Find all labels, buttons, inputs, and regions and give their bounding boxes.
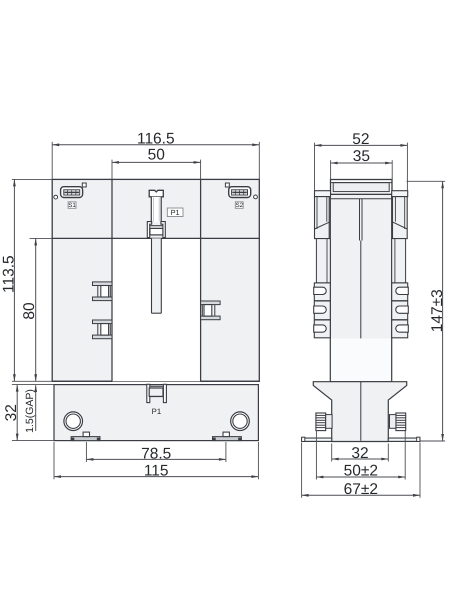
dim 116.5 extension lines [52,142,259,180]
clamp nut [150,228,163,235]
side view: main column [330,194,391,381]
dim 80 [21,238,38,381]
dim 52 extension lines [315,143,408,191]
side view: top cap [331,180,393,195]
dim 115 extension lines [54,442,258,479]
side view: spring comb left [314,283,331,338]
dim 67+-2 [302,481,420,498]
svg-text:50: 50 [148,147,166,164]
side view: foot left [302,437,332,441]
dim 50 extension lines [112,160,201,180]
side view: collar line under cap [330,198,391,200]
svg-text:147±3: 147±3 [429,289,446,332]
terminal S1 connector [61,187,83,198]
label P1 box [167,208,183,217]
window latch clip lower-left [93,320,113,339]
front view: base block [54,385,258,441]
label P1 on base [152,407,162,416]
dim 50+-2 extension lines [316,431,405,480]
dim 32 side [332,445,389,462]
side view: core split lines [360,199,363,438]
svg-text:78.5: 78.5 [141,445,171,462]
side view: base trapezoid [313,382,406,442]
svg-text:S1: S1 [68,202,76,209]
svg-text:35: 35 [353,148,370,165]
dim 50+-2 [316,463,405,480]
side view: wing channel right [392,197,407,239]
svg-text:P1: P1 [171,208,180,217]
base mounting hole right [231,412,250,431]
terminal S2 pilot circle [254,195,258,199]
side view: spring comb right [392,283,409,338]
side view: wing channel left [315,197,331,239]
base clamp nut [149,388,163,396]
foot left (front view) [71,432,100,441]
svg-text:115: 115 [144,463,169,480]
svg-text:116.5: 116.5 [137,130,175,147]
dim 113.5 [1,179,18,381]
label S2 [235,202,243,209]
svg-text:113.5: 113.5 [1,255,18,293]
dim 50 [112,147,201,164]
terminal S1 corner square [82,183,86,187]
svg-text:32: 32 [3,404,20,421]
base clamp bracket [147,384,167,402]
dim 113.5 extension lines [12,179,53,381]
dim 35 [331,148,393,165]
dim 35 extension lines [331,160,393,179]
label S1 [68,202,76,209]
side view: strip left [316,239,330,283]
dim 78.5 extension lines [86,442,226,462]
dim 32 extension lines [12,385,54,441]
clamp bracket [147,222,165,238]
terminal S2 connector [229,187,251,198]
clamp screw head [149,190,163,197]
svg-text:S2: S2 [236,202,244,209]
terminal S1 pilot circle [54,195,58,199]
svg-text:67±2: 67±2 [344,481,378,498]
terminal S2 corner square [225,183,229,187]
dim 147+-3 [429,181,446,441]
side view: thumb screw right [390,413,406,431]
front view: CT body outline [52,179,259,381]
svg-text:1.5(GAP): 1.5(GAP) [24,389,36,433]
window latch clip upper-left [93,282,113,301]
svg-text:50±2: 50±2 [344,463,378,480]
clamp rod in window [152,238,162,313]
side view: ear left [315,191,331,197]
svg-text:32: 32 [351,445,368,462]
dim 67+-2 extension lines [302,443,420,498]
svg-text:80: 80 [21,302,38,320]
dim 80 extension line [30,237,53,239]
side view: strip right [392,239,406,283]
side view: ear right [392,191,408,197]
side view: thumb screw left [316,413,332,431]
dim 116.5 [52,130,259,147]
svg-text:P1: P1 [152,407,162,416]
dim 78.5 [86,445,226,462]
window latch clip right [201,301,221,320]
dim 147 extension lines [407,181,446,441]
dim 32 side extension lines [332,444,389,462]
dim 52 [315,131,408,148]
dim 32 left [3,385,20,441]
side view: foot right [388,437,420,441]
foot right (front view) [213,432,242,441]
clamp screw shaft [151,197,161,222]
dim 115 [54,463,258,480]
base mounting hole left [64,412,83,431]
svg-text:52: 52 [352,131,369,148]
dim 1.5(GAP) leader [24,385,37,433]
side view: lower column section [331,338,391,381]
